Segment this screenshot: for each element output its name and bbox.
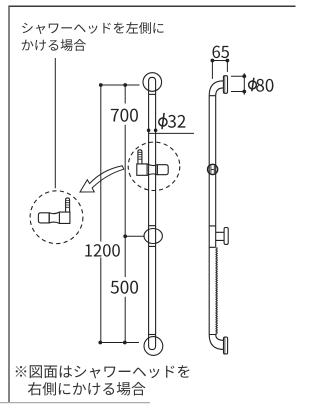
bottom cap joint line bbox=[149, 334, 156, 336]
detail circle left (dashed) bbox=[30, 191, 83, 244]
dimension bottom reference line bbox=[100, 342, 139, 344]
slide rail serrated edge bbox=[216, 247, 217, 334]
dimension 700/500 extension line bbox=[124, 85, 126, 343]
dimension 65 line bbox=[212, 61, 227, 79]
bottom wall flange (edge-on) bbox=[224, 337, 228, 354]
detail arrow (outline) bbox=[80, 166, 124, 192]
label phi32 bbox=[159, 113, 167, 129]
slide bar tube edges bbox=[149, 94, 156, 334]
holder side view arm bbox=[216, 232, 224, 240]
dimension top reference line bbox=[101, 84, 140, 86]
mirrored hook pin hatching bbox=[66, 200, 70, 207]
side view top elbow bbox=[209, 81, 223, 96]
dimension end dots bbox=[98, 83, 157, 344]
label 500 bbox=[111, 281, 138, 294]
slider lock knob circle bbox=[144, 229, 162, 244]
slide bar bottom end cap circle bbox=[144, 337, 163, 356]
frame top border bbox=[8, 5, 295, 7]
caption bottom note line1 bbox=[16, 365, 190, 378]
slide bar tube with rounded top end bbox=[149, 77, 156, 94]
slide bar rounded bottom end bbox=[149, 335, 156, 350]
detail circle around holder (dashed) bbox=[128, 142, 180, 190]
phi32 leader underline bbox=[149, 132, 194, 134]
side view tube edges bbox=[209, 96, 216, 335]
caption bottom note line2 bbox=[28, 382, 146, 396]
leader line from caption to detail circle bbox=[54, 58, 56, 188]
label 700 bbox=[111, 109, 138, 122]
partial bottom rule (gray) bbox=[0, 402, 150, 404]
holder position pointer line bbox=[125, 235, 145, 237]
mirrored holder right block bbox=[59, 212, 70, 223]
caption line2 bbox=[22, 39, 86, 51]
mirrored holder left block bbox=[38, 213, 49, 223]
label phi80 bbox=[249, 78, 257, 92]
slider lock knob (side) bbox=[208, 164, 218, 174]
caption: shower head left-side note line1 bbox=[22, 22, 163, 34]
label 1200 bbox=[85, 244, 120, 257]
top wall flange (edge-on) bbox=[223, 76, 227, 94]
hook pin hatching bbox=[138, 152, 142, 159]
holder side view sleeve joints bbox=[209, 226, 216, 247]
mirrored holder hook pin bbox=[66, 198, 70, 212]
mirrored holder waist bbox=[49, 212, 59, 223]
dimension 1200 extension line bbox=[100, 85, 102, 343]
side view bottom elbow bbox=[209, 335, 223, 350]
top cap joint line bbox=[149, 93, 156, 95]
label 65 bbox=[213, 46, 229, 58]
holder right block bbox=[157, 165, 168, 175]
slide bar top end cap circle bbox=[143, 73, 162, 92]
shower head holder: hook pin bbox=[138, 150, 142, 164]
holder left block bbox=[137, 164, 147, 175]
holder waist section bbox=[147, 164, 157, 175]
holder side view plate bbox=[224, 228, 228, 245]
frame left border bbox=[8, 6, 10, 402]
dimension phi80 lines bbox=[231, 73, 244, 95]
slider sleeve joint lines bbox=[149, 226, 156, 247]
